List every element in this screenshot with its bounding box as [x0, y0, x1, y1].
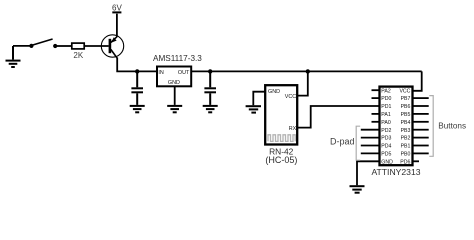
svg-text:PD1: PD1: [381, 104, 391, 110]
svg-text:Buttons: Buttons: [438, 122, 466, 131]
svg-text:(HC-05): (HC-05): [265, 155, 297, 165]
wire U3 PB0 (buttons): [413, 152, 429, 154]
label RN-42: [269, 147, 294, 157]
svg-text:PA1: PA1: [381, 112, 391, 118]
wire U3 PB6 (buttons): [413, 105, 429, 107]
ground GND3 (U1): [167, 106, 182, 112]
wire U3 PD5 (D-pad): [361, 152, 379, 154]
pin stub U3 PD0: [372, 97, 380, 99]
wire U1 GND pin: [174, 87, 176, 105]
label (HC-05): [265, 155, 297, 165]
IC U3 ATTINY2313: [380, 87, 413, 166]
svg-text:RX: RX: [289, 126, 297, 132]
resistor R1: [72, 43, 84, 49]
wire U3 GND pin: [357, 161, 379, 185]
svg-text:VCC: VCC: [285, 94, 296, 100]
wire U3 PD2 (D-pad): [361, 129, 379, 131]
wire U1 OUT rail: [191, 70, 422, 72]
svg-text:AMS1117-3.3: AMS1117-3.3: [153, 54, 202, 63]
wire resistor to base: [84, 45, 108, 47]
svg-text:ATTINY2313: ATTINY2313: [371, 167, 420, 177]
label 2K: [73, 51, 83, 60]
svg-text:PD3: PD3: [381, 136, 391, 142]
svg-text:2K: 2K: [73, 51, 83, 60]
junction node at C1: [135, 69, 139, 73]
wire switch to resistor: [56, 45, 72, 47]
wire U3 PB3 (buttons): [413, 129, 429, 131]
svg-text:PD6: PD6: [400, 159, 410, 165]
wire collector to rail: [117, 58, 156, 72]
wire RN-42 GND: [253, 92, 265, 106]
capacitor C1: [131, 71, 143, 105]
pin stub U3 PA2: [372, 89, 380, 91]
svg-text:GND: GND: [168, 80, 180, 86]
wire U3 PB1 (buttons): [413, 145, 429, 147]
svg-text:D-pad: D-pad: [330, 137, 355, 147]
svg-text:PA0: PA0: [381, 120, 391, 126]
junction node at C2: [208, 69, 212, 73]
pin stub U3 PD6: [413, 160, 419, 162]
wire rail to U3 VCC pin: [413, 71, 422, 90]
wire U3 PD4 (D-pad): [361, 145, 379, 147]
antenna squiggle inside U2: [268, 135, 295, 142]
svg-text:PB6: PB6: [401, 104, 411, 110]
svg-text:PB1: PB1: [401, 144, 411, 150]
svg-text:PB0: PB0: [401, 152, 411, 158]
ground GND5 (RN-42): [246, 106, 261, 112]
label D-pad: [330, 137, 355, 147]
svg-text:PA2: PA2: [381, 88, 391, 94]
svg-text:GND: GND: [381, 159, 393, 165]
svg-text:GND: GND: [268, 89, 280, 95]
svg-text:PD2: PD2: [381, 128, 391, 134]
svg-text:PB5: PB5: [401, 112, 411, 118]
junction node at RN-42 VCC: [306, 69, 310, 73]
wire rail to RN-42 VCC: [298, 71, 308, 95]
ground GND2 (C1): [130, 106, 145, 112]
svg-text:PB4: PB4: [401, 120, 411, 126]
switch S1: [29, 39, 57, 48]
ground GND6 (U3): [350, 186, 365, 193]
svg-text:IN: IN: [158, 70, 163, 76]
svg-text:OUT: OUT: [178, 70, 190, 76]
bracket Buttons: [429, 96, 433, 157]
label Buttons: [438, 122, 466, 131]
regulator U1 AMS1117-3.3: [157, 67, 191, 87]
label ATTINY2313: [371, 167, 420, 177]
6V supply: [112, 4, 122, 13]
wire RN-42 RX to U3 PD1: [298, 106, 380, 128]
wire U3 PB2 (buttons): [413, 137, 429, 139]
pin stub U3 PA0: [372, 121, 380, 123]
svg-text:PD4: PD4: [381, 144, 391, 150]
pin stub U3 PA1: [372, 113, 380, 115]
wire U3 PB4 (buttons): [413, 121, 429, 123]
module U2 RN-42: [265, 85, 297, 144]
svg-text:PB3: PB3: [401, 128, 411, 134]
bracket D-pad: [356, 126, 360, 160]
wire U3 PD3 (D-pad): [361, 137, 379, 139]
ground GND4 (C2): [203, 106, 218, 112]
transistor Q1 (PNP): [101, 35, 123, 59]
ground GND1 (switch): [6, 46, 21, 67]
svg-text:PB7: PB7: [401, 96, 411, 102]
wire 6V to emitter: [116, 14, 118, 37]
label AMS1117-3.3: [153, 54, 202, 63]
wire ground to switch: [13, 45, 31, 47]
svg-text:VCC: VCC: [399, 88, 410, 94]
svg-text:PB2: PB2: [401, 136, 411, 142]
svg-text:6V: 6V: [112, 4, 122, 13]
wire U3 PB5 (buttons): [413, 113, 429, 115]
capacitor C2: [204, 71, 216, 105]
wire U3 PB7 (buttons): [413, 97, 429, 99]
svg-text:PD5: PD5: [381, 152, 391, 158]
svg-text:PD0: PD0: [381, 96, 391, 102]
